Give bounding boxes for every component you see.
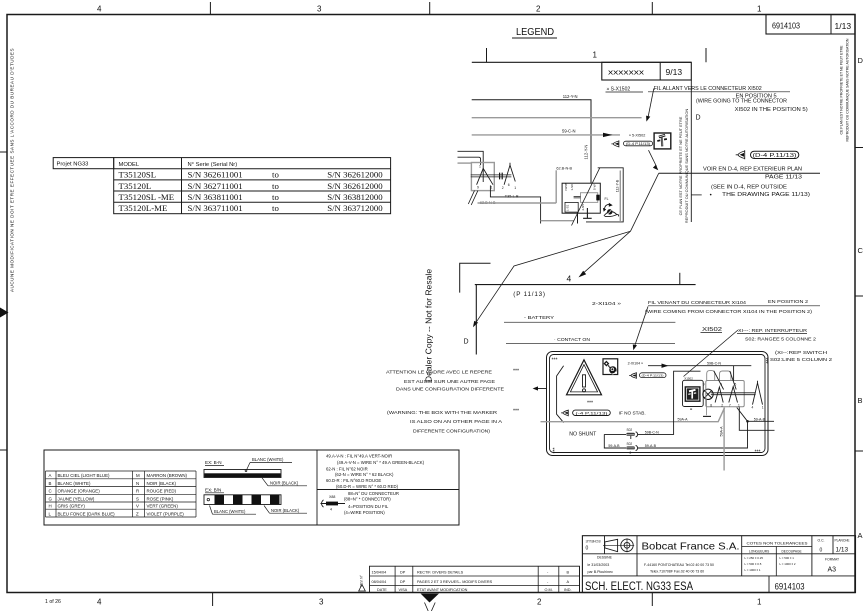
svg-text:T35120SL -ME: T35120SL -ME: [119, 192, 175, 202]
svg-text:T35120L-ME: T35120L-ME: [119, 203, 168, 213]
svg-text:D: D: [858, 56, 864, 65]
svg-text:(62-N = WIRE N° * 62 BLACK): (62-N = WIRE N° * 62 BLACK): [335, 472, 394, 477]
fold mark bottom center: [421, 594, 440, 603]
key symbol box 2: [603, 359, 618, 375]
svg-text:DP: DP: [400, 580, 406, 584]
svg-text:(WIRE GOING TO THE CONNECTOR: (WIRE GOING TO THE CONNECTOR: [696, 99, 787, 105]
svg-text:S02: RANGEE 5 COLONNE 2: S02: RANGEE 5 COLONNE 2: [745, 337, 816, 342]
switch wire loop 1: [707, 371, 715, 381]
svg-text:(49.A-V-N = WIRE N° * 49.A G: (49.A-V-N = WIRE N° * 49.A GREEN-BLACK): [337, 460, 425, 465]
color table texts: [49, 473, 188, 516]
svg-text:DECOUPAGE: DECOUPAGE: [782, 549, 802, 553]
capacitor bars: [500, 173, 503, 180]
connector box sheet1: [562, 183, 600, 213]
svg-text:Bobcat France S.A.: Bobcat France S.A.: [642, 541, 740, 553]
svg-text:3: 3: [317, 5, 322, 14]
svg-text:NOIR (BLACK): NOIR (BLACK): [147, 481, 177, 486]
svg-text:59-A-B: 59-A-B: [754, 417, 766, 421]
svg-text:S/N 362612000: S/N 362612000: [327, 181, 383, 191]
svg-text:F-44160 PONTCHATEAU Tel.02 40: F-44160 PONTCHATEAU Tel.02 40 00 73 50: [644, 563, 714, 567]
svg-text:L = 1000 ± 2: L = 1000 ± 2: [780, 562, 796, 566]
title block outer: [582, 536, 855, 593]
svg-text:9: 9: [703, 382, 705, 386]
reference pill 3: [640, 373, 667, 378]
eye view symbol: [604, 211, 617, 216]
leader arrow from FIL ALLANT to wire: [648, 89, 654, 118]
switch bus double line: [711, 393, 756, 395]
connector outline right: [586, 168, 623, 222]
arrow out left: [537, 388, 547, 390]
svg-text:THE DRAWING PAGE 11/13): THE DRAWING PAGE 11/13): [722, 192, 810, 198]
sheet1 title box xxxxxxx 9/13: [602, 62, 692, 80]
wire color legend box: [44, 450, 459, 525]
svg-text:(XI--:REP SWITCH: (XI--:REP SWITCH: [775, 350, 827, 355]
pointer branch to sheet2 arrow: [581, 231, 631, 275]
svg-text:FIL VENANT DU CONNECTEUR XI104: FIL VENANT DU CONNECTEUR XI104: [648, 300, 746, 306]
svg-text:H: H: [49, 504, 52, 509]
svg-text:S/N 362711001: S/N 362711001: [188, 181, 243, 191]
svg-text:15/04/04: 15/04/04: [372, 570, 387, 574]
svg-text:(P 11/13): (P 11/13): [513, 291, 546, 298]
svg-text:60.D-R : FIL N°60.D ROUGE: 60.D-R : FIL N°60.D ROUGE: [326, 478, 381, 483]
svg-text:AUCUNE MODIFICATION NE DOIT ET: AUCUNE MODIFICATION NE DOIT ETRE EFFECTU…: [10, 48, 15, 292]
svg-text:1/13: 1/13: [835, 21, 852, 31]
fuse1 wire: [604, 371, 700, 434]
ground under lamp: [706, 400, 708, 416]
svg-text:62-N : FIL N°62 NOIR: 62-N : FIL N°62 NOIR: [326, 467, 368, 472]
pin leads diagonal: [468, 191, 478, 205]
arrow wire top: [648, 365, 751, 367]
project serial table: main grid: [114, 158, 391, 214]
svg-text:A3: A3: [828, 567, 837, 574]
svg-text:L = 500 ± 0.5: L = 500 ± 0.5: [745, 562, 762, 566]
sheet2 left edge: [475, 285, 477, 355]
svg-text:2: 2: [502, 186, 504, 190]
svg-text:to: to: [272, 203, 279, 213]
svg-text:S02: S02: [627, 442, 633, 446]
striped wire bar 1: [204, 470, 281, 478]
svg-text:9: 9: [477, 186, 479, 190]
svg-text:(WIRE COMING FROM CONNECTOR XI: (WIRE COMING FROM CONNECTOR XI104 IN THE…: [645, 309, 812, 315]
svg-text:- BATTERY: - BATTERY: [524, 315, 555, 321]
leader into main box: [635, 307, 649, 347]
svg-text:N: N: [136, 481, 139, 486]
svg-text:S/N 363711001: S/N 363711001: [188, 203, 243, 213]
svg-text:3: 3: [319, 598, 324, 607]
svg-text:DESSINE: DESSINE: [597, 556, 613, 560]
junction dot: [746, 420, 749, 423]
svg-text:59B-C-N: 59B-C-N: [707, 361, 721, 365]
svg-text:PLANCHE: PLANCHE: [835, 538, 850, 542]
svg-text:(SEE IN D-4, REP OUTSIDE: (SEE IN D-4, REP OUTSIDE: [711, 184, 788, 190]
svg-text:S: S: [136, 497, 139, 502]
lever triangle: [753, 381, 763, 405]
fuse2 wire left: [604, 434, 626, 448]
svg-text:4: 4: [97, 5, 102, 14]
svg-text:88=N° DU CONNECTEUR: 88=N° DU CONNECTEUR: [348, 491, 399, 496]
svg-text:1: 1: [593, 51, 598, 60]
exclamation bar: [583, 375, 586, 387]
fuse2: [626, 446, 635, 449]
svg-text:D: D: [696, 115, 701, 122]
wire 59-C-N: [472, 134, 620, 136]
sheet1 zone tick left: [486, 48, 488, 62]
zone tick top 2/1: [651, 2, 653, 15]
flasher triangle 1: [477, 168, 493, 184]
svg-text:M: M: [136, 473, 140, 478]
revision delta symbol: [359, 585, 366, 592]
svg-text:FORMAT: FORMAT: [825, 558, 839, 562]
svg-text:JAUNE (YELLOW): JAUNE (YELLOW): [58, 497, 95, 502]
wire naming examples: [326, 454, 425, 489]
svg-text:L = 250 ± 0.25: L = 250 ± 0.25: [745, 556, 764, 560]
top right drawing number box: [766, 15, 855, 35]
svg-text:ATTENTION LE CADRE AVEC LE REP: ATTENTION LE CADRE AVEC LE REPERE: [386, 370, 492, 376]
horizontal divider: [317, 489, 459, 491]
zone tick bottom 4/3: [212, 593, 214, 607]
svg-text:2: 2: [536, 5, 541, 14]
svg-text:BLEU FONCE (DARK BLUE): BLEU FONCE (DARK BLUE): [58, 512, 116, 517]
svg-text:to: to: [272, 192, 279, 202]
svg-text:X88: X88: [329, 495, 335, 499]
svg-text:par B.Plouhinec: par B.Plouhinec: [588, 570, 614, 574]
svg-text:G: G: [49, 497, 53, 502]
svg-text:0: 0: [820, 548, 823, 554]
zone tick right C/B: [855, 295, 863, 297]
sheet2 frame line: [475, 284, 696, 286]
switch crossing diagonal 2: [730, 371, 736, 390]
svg-text:S/N 363712000: S/N 363712000: [327, 203, 383, 213]
grey drop wire from label: [555, 170, 557, 203]
wire 112-Y-N: [472, 100, 591, 183]
svg-text:NOIR (BLACK): NOIR (BLACK): [270, 481, 299, 486]
svg-text:A: A: [49, 473, 52, 478]
svg-text:4=POSITION DU FIL: 4=POSITION DU FIL: [348, 504, 389, 509]
svg-text:S02:LINE 5 COLUMN 2: S02:LINE 5 COLUMN 2: [770, 357, 833, 362]
svg-text:RECTIF. DIVERS DETAILS: RECTIF. DIVERS DETAILS: [417, 570, 464, 574]
svg-text:NOIR (BLACK): NOIR (BLACK): [271, 508, 300, 513]
svg-text:Dealer Copy -- Not for Resale: Dealer Copy -- Not for Resale: [424, 269, 434, 382]
svg-text:DATE: DATE: [377, 588, 387, 592]
revision table: [370, 566, 580, 592]
svg-text:1 of 26: 1 of 26: [45, 599, 61, 605]
svg-text:LONGUEURS: LONGUEURS: [749, 549, 769, 553]
svg-text:2: 2: [537, 598, 542, 607]
svg-text:Telex.710708F Fax.02 40 00 73: Telex.710708F Fax.02 40 00 73 60: [650, 570, 704, 574]
lamp symbol: [703, 389, 713, 399]
svg-text:2-XI104 »: 2-XI104 »: [592, 301, 622, 306]
arrow on wire 59-C-N: [603, 133, 613, 137]
left wires into flasher: [458, 151, 484, 182]
svg-text:6: 6: [508, 183, 510, 187]
svg-text:(60.D-R = WIRE N° * 60.D RED: (60.D-R = WIRE N° * 60.D RED): [336, 484, 399, 489]
svg-text:» 5-XI502: » 5-XI502: [629, 133, 645, 137]
wire 59A-A grey: [541, 408, 725, 422]
speaker symbol 1: [611, 140, 619, 147]
svg-text:ECHELLE: ECHELLE: [585, 539, 601, 543]
svg-text:59-A-B: 59-A-B: [645, 444, 657, 448]
svg-text:BLANC (WHITE): BLANC (WHITE): [214, 509, 246, 514]
svg-text:***: ***: [513, 408, 519, 414]
svg-text:1/13: 1/13: [836, 547, 849, 554]
svg-text:(D-4 P.11/13): (D-4 P.11/13): [626, 142, 650, 146]
svg-text:ROSE (PINK): ROSE (PINK): [147, 497, 174, 502]
sheet2 corner bracket: [460, 263, 491, 292]
svg-text:(D-4 P.11/13): (D-4 P.11/13): [642, 374, 664, 378]
svg-text:GRIS (GREY): GRIS (GREY): [58, 504, 86, 509]
zone tick top 3/2: [429, 2, 431, 15]
svg-text:Projet NG33: Projet NG33: [57, 162, 89, 168]
svg-text:S-W: S-W: [592, 184, 596, 190]
zone tick top 4/3: [209, 2, 211, 15]
svg-text:***: ***: [553, 447, 559, 453]
svg-text:4: 4: [330, 508, 332, 512]
warning triangle outer: [567, 360, 602, 395]
svg-text:xxxxxxx: xxxxxxx: [608, 70, 645, 77]
switch box: [706, 381, 744, 407]
svg-text:L = 1000 ± 1: L = 1000 ± 1: [745, 568, 761, 572]
main box outer: [547, 352, 769, 456]
svg-text:SCH. ELECT. NG33 ESA: SCH. ELECT. NG33 ESA: [585, 581, 693, 593]
black wire to connector: [490, 185, 540, 223]
svg-text:(88=N° * CONNECTOR): (88=N° * CONNECTOR): [344, 497, 391, 502]
svg-text:1: 1: [738, 404, 740, 408]
svg-text:59A-A: 59A-A: [719, 426, 723, 437]
svg-text:(D-4 P.11/13): (D-4 P.11/13): [753, 153, 798, 159]
connector double line: [574, 196, 581, 198]
svg-text:REPRODUIT OU COMMUNIQUE SANS N: REPRODUIT OU COMMUNIQUE SANS NOTRE AUTOR…: [846, 38, 850, 141]
svg-text:S/N 362612000: S/N 362612000: [327, 170, 383, 180]
wire pin1 down: [739, 407, 774, 430]
svg-text:1: 1: [757, 5, 762, 14]
svg-text:7: 7: [729, 404, 731, 408]
svg-text:0: 0: [586, 546, 589, 552]
contact on line: [506, 343, 675, 345]
svg-text:T35120SL: T35120SL: [119, 170, 157, 180]
svg-text:B: B: [858, 396, 863, 405]
pointer branch to sheet2 corner: [475, 231, 631, 325]
switch crossing diagonal 1: [714, 371, 724, 390]
svg-text:112-Y-N: 112-Y-N: [563, 94, 578, 99]
svg-text:1: 1: [479, 165, 481, 169]
svg-text:08/04/04: 08/04/04: [372, 580, 387, 584]
zone tick left D/C: [0, 151, 7, 153]
svg-text:A: A: [858, 531, 863, 540]
svg-text:L-S1: L-S1: [566, 204, 570, 211]
svg-text:IND.: IND.: [564, 588, 572, 592]
svg-text:V: V: [136, 504, 139, 509]
leader XI502 to connector: [684, 330, 739, 377]
svg-text:112-Y-B: 112-Y-B: [616, 179, 620, 192]
serial row 1: [119, 170, 384, 214]
wire 59A-A down long: [723, 408, 725, 471]
svg-text:LEGEND: LEGEND: [516, 26, 554, 38]
legend box divider: [316, 450, 318, 525]
svg-text:XI---: REP. INTERRUPTEUR: XI---: REP. INTERRUPTEUR: [738, 328, 808, 333]
projection symbol: [605, 539, 618, 551]
fold arrow left edge: [0, 308, 9, 318]
dash and dot: [691, 194, 702, 196]
svg-text:2-XI104 »: 2-XI104 »: [628, 361, 644, 365]
flasher triangle 2: [504, 163, 515, 185]
svg-text:· CONTACT ON: · CONTACT ON: [554, 337, 591, 343]
svg-text:T35-L-B: T35-L-B: [505, 194, 519, 198]
svg-text:59-A-B: 59-A-B: [608, 444, 620, 448]
svg-text:ORANGE (ORANGE): ORANGE (ORANGE): [58, 489, 101, 494]
svg-text:BLANC (WHITE): BLANC (WHITE): [252, 457, 284, 462]
speaker symbol 2: [736, 150, 745, 159]
svg-text:59A-A: 59A-A: [678, 417, 689, 421]
svg-text:le 31/03/2003: le 31/03/2003: [588, 563, 610, 567]
svg-text:IS ALSO ON AN OTHER PAGE IN A: IS ALSO ON AN OTHER PAGE IN A: [410, 419, 503, 425]
reference pill D-4 P.11/13 small: [624, 141, 653, 146]
connector numbering note: [344, 491, 399, 515]
svg-text:EX: B/N: EX: B/N: [205, 487, 221, 492]
battery line: [504, 321, 675, 323]
svg-text:(4=WIRE POSITION): (4=WIRE POSITION): [344, 510, 385, 515]
svg-text:N° Serie (Serial Nr): N° Serie (Serial Nr): [188, 162, 238, 168]
sheet1 zone tick right: [705, 48, 707, 62]
svg-text:NO SHUNT: NO SHUNT: [569, 432, 597, 438]
svg-text:1: 1: [757, 598, 762, 607]
speaker symbol 4: [561, 410, 568, 417]
switch contact caret 2: [729, 387, 738, 403]
svg-text:FL: FL: [605, 197, 609, 201]
svg-text:BLEU CIEL (LIGHT BLUE): BLEU CIEL (LIGHT BLUE): [58, 473, 111, 478]
zone tick bottom 2/1: [651, 593, 653, 607]
svg-text:ROUGE (RED): ROUGE (RED): [147, 489, 177, 494]
zone tick right B/A: [855, 450, 863, 452]
svg-text:CE PLAN EST NOTRE PROPRIETE ET: CE PLAN EST NOTRE PROPRIETE ET NE PEUT E…: [840, 45, 844, 135]
svg-text:EX: B-N: EX: B-N: [205, 460, 222, 465]
switch feed vertical: [733, 366, 735, 381]
svg-text:62.B-N-B: 62.B-N-B: [556, 166, 572, 170]
wire junction right: [748, 420, 775, 422]
reference pill D-4 P.11/13 large: [751, 151, 799, 158]
zone tick right D/C: [855, 147, 863, 149]
junction horizontal line: [659, 172, 820, 174]
svg-text:BLANC (WHITE): BLANC (WHITE): [58, 481, 91, 486]
svg-text:EST AUSSI SUR UNE AUTRE PAGE: EST AUSSI SUR UNE AUTRE PAGE: [404, 379, 495, 385]
wire pin7 to junction: [737, 408, 748, 422]
svg-text:1: 1: [514, 186, 516, 190]
connector sub box: [565, 202, 578, 212]
leader from key box to junction: [649, 150, 657, 166]
svg-text:DANS UNE CONFIGURATION DIFFERE: DANS UNE CONFIGURATION DIFFERENTE: [396, 387, 504, 393]
svg-text:ETAT AVANT MODIFICATION: ETAT AVANT MODIFICATION: [417, 588, 468, 592]
svg-text:***: ***: [755, 450, 761, 456]
bus double line: [471, 175, 512, 177]
striped wire bar 2: [204, 495, 281, 505]
fuse1: [626, 433, 635, 436]
svg-text:COTES NON TOLERANCEES: COTES NON TOLERANCEES: [747, 541, 809, 545]
pointer line to junction fork: [631, 173, 659, 231]
svg-text:DP: DP: [400, 570, 406, 574]
svg-text:(WARNING: THE BOX WITH THE MAR: (WARNING: THE BOX WITH THE MARKER: [387, 410, 498, 416]
svg-text:XI502 IN THE POSITION 5): XI502 IN THE POSITION 5): [735, 107, 808, 113]
left bracket marker: [557, 366, 564, 423]
svg-text:4: 4: [97, 598, 102, 607]
switch contact caret 1: [715, 387, 723, 403]
svg-text:to: to: [272, 170, 279, 180]
project serial table: Projet cell: [53, 158, 113, 169]
svg-text:VOIR EN D-4, REP EXTERIEUR PLA: VOIR EN D-4, REP EXTERIEUR PLAN: [703, 167, 802, 173]
svg-text:S/N 362611001: S/N 362611001: [188, 170, 243, 180]
svg-text:XI502: XI502: [702, 327, 722, 333]
sheet1 frame line: [472, 61, 692, 63]
svg-text:1-S0: 1-S0: [570, 184, 574, 191]
svg-text:S02: S02: [627, 428, 633, 432]
zone tick left B/A: [0, 449, 7, 451]
svg-text:FIL ALLANT VERS LE CONNECTEUR: FIL ALLANT VERS LE CONNECTEUR XI502: [654, 86, 762, 92]
svg-text:MARRON (BROWN): MARRON (BROWN): [147, 473, 188, 478]
connector key inner box: [685, 386, 701, 402]
svg-text:to: to: [272, 181, 279, 191]
svg-text:VERT (GREEN): VERT (GREEN): [147, 504, 179, 509]
svg-text:***: ***: [762, 358, 768, 364]
svg-text:CE PLAN EST NOTRE PROPRIETE ET: CE PLAN EST NOTRE PROPRIETE ET NE PEUT E…: [678, 116, 683, 215]
connector inner white rect: [581, 193, 598, 203]
wire grey upper: [472, 117, 642, 119]
grey wire 112-Y-B: [619, 171, 621, 222]
diagonal through connector: [572, 168, 600, 226]
svg-text:Z: Z: [136, 512, 139, 517]
key symbol box: [654, 133, 671, 149]
svg-text:C: C: [49, 489, 52, 494]
grey component box: [471, 163, 494, 191]
grey wire into box: [458, 162, 472, 164]
warning triangle inner: [570, 365, 597, 392]
svg-text:PAGES 2 ET 3 REVUES-- MODIFS: PAGES 2 ET 3 REVUES-- MODIFS DIVERS: [417, 580, 493, 584]
svg-text:PAGE 11/13: PAGE 11/13: [765, 175, 802, 181]
svg-text:***: ***: [587, 401, 593, 407]
svg-text:4: 4: [567, 274, 572, 284]
svg-text:N25B: N25B: [564, 183, 568, 191]
svg-text:O.C.: O.C.: [818, 538, 825, 542]
switch wire loop 2: [720, 371, 731, 381]
svg-text:VIOLET (PURPLE): VIOLET (PURPLE): [147, 512, 185, 517]
sheet2 zone tick: [679, 273, 681, 285]
svg-text:***: ***: [552, 358, 558, 364]
svg-text:O.M.: O.M.: [545, 588, 553, 592]
svg-text:1: 1: [762, 405, 764, 409]
svg-text:59B-C-N: 59B-C-N: [645, 430, 659, 434]
svg-text:112-Y-N: 112-Y-N: [584, 145, 589, 160]
svg-text:6914103: 6914103: [772, 21, 800, 31]
svg-text:B: B: [49, 481, 52, 486]
svg-text:REPRODUIT OU COMMUNIQUE SANS N: REPRODUIT OU COMMUNIQUE SANS NOTRE AUTOR…: [684, 109, 689, 224]
speaker symbol 3: [629, 372, 636, 379]
svg-text:» S-X1502: » S-X1502: [607, 87, 631, 93]
vertical line below title box: [690, 80, 692, 222]
svg-text:8: 8: [710, 404, 712, 408]
svg-text:6914103: 6914103: [775, 582, 805, 592]
svg-text:2: 2: [721, 404, 723, 408]
svg-text:59-C-N: 59-C-N: [562, 129, 576, 134]
svg-text:***: ***: [513, 368, 519, 374]
exclamation dot: [583, 389, 586, 392]
svg-text:2: 2: [630, 451, 632, 455]
svg-text:T35120L: T35120L: [119, 181, 152, 191]
svg-text:49.A-V-N : FIL N°49.A VERT-NOI: 49.A-V-N : FIL N°49.A VERT-NOIR: [326, 454, 392, 459]
svg-text:IF NO STAB.: IF NO STAB.: [619, 411, 646, 416]
main box inner: [550, 355, 766, 453]
svg-text:L = 500 ± 1: L = 500 ± 1: [780, 556, 795, 560]
svg-text:R: R: [136, 489, 139, 494]
color table grid: [46, 471, 197, 517]
svg-text:S/N 363811001: S/N 363811001: [188, 192, 243, 202]
svg-text:4: 4: [752, 405, 754, 409]
